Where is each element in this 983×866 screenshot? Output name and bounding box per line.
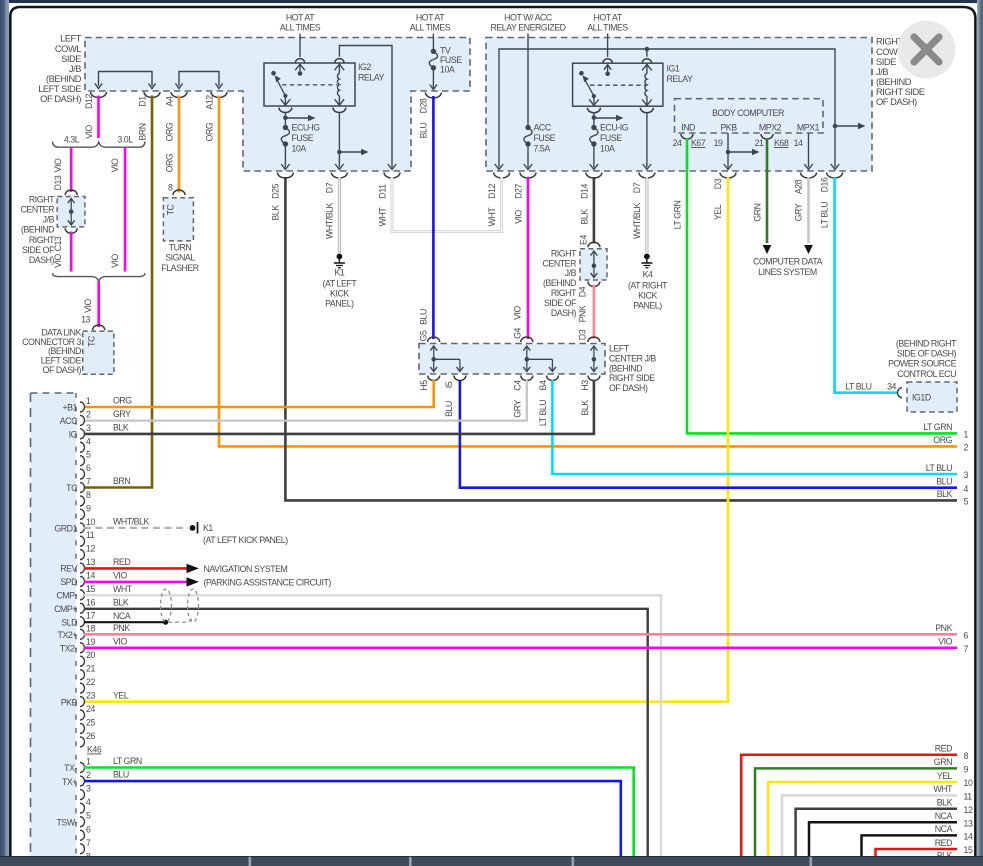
- wire LT GRN K46 pin1: [84, 756, 634, 856]
- pin C4 label: [513, 380, 523, 418]
- svg-text:3: 3: [86, 423, 91, 433]
- svg-text:K68: K68: [774, 138, 789, 148]
- wire GRN circuit 9: [755, 757, 969, 856]
- pin D14 label: [580, 184, 590, 225]
- svg-text:CMP-: CMP-: [56, 591, 77, 601]
- pin D3 label: [713, 178, 723, 220]
- wire VIO datalink label: [83, 298, 93, 312]
- wire VIO 3.0L branch: [124, 148, 127, 272]
- turn signal flasher pin 8: [168, 183, 185, 196]
- net: HOT AT ALL TIMES (IG1 switch feed): [587, 13, 628, 58]
- svg-text:D1: D1: [138, 96, 148, 107]
- strip pin 24: [80, 704, 95, 720]
- strip pin 6: [80, 463, 91, 479]
- strip pin 4: [80, 436, 91, 452]
- connector D14: [586, 173, 602, 179]
- svg-text:B4: B4: [538, 380, 548, 390]
- svg-text:VIO: VIO: [938, 637, 952, 647]
- svg-text:LT BLU: LT BLU: [926, 463, 952, 473]
- svg-text:J/B: J/B: [69, 64, 81, 74]
- svg-text:OF DASH): OF DASH): [876, 97, 917, 107]
- wire VIO from D27 to G4: [527, 177, 530, 339]
- svg-text:PKB: PKB: [61, 697, 78, 707]
- wire PNK from D4 to D3: [593, 285, 596, 340]
- connector D12 (right J/B): [494, 173, 510, 179]
- wire PNK pin18 to right edge (circuit 6): [84, 623, 957, 635]
- svg-text:(AT LEFT: (AT LEFT: [323, 279, 358, 289]
- wire VIO 3.0L labels: [110, 158, 120, 268]
- connector D7 (right): [639, 173, 655, 179]
- svg-text:3: 3: [86, 784, 91, 794]
- svg-text:5: 5: [86, 811, 91, 821]
- wire G5 BLU label: [419, 309, 429, 341]
- svg-text:VIO: VIO: [84, 124, 94, 138]
- svg-text:RIGHT: RIGHT: [551, 288, 577, 298]
- wire: right J/B feed rail: [495, 47, 866, 170]
- strip connector K46 pin 4: [80, 797, 91, 813]
- svg-text:BLK: BLK: [113, 422, 129, 432]
- svg-text:LT BLU: LT BLU: [538, 400, 548, 426]
- svg-text:BLU: BLU: [419, 309, 429, 325]
- strip pin 2: [60, 409, 91, 426]
- svg-text:HOT AT: HOT AT: [593, 13, 622, 23]
- svg-text:RED: RED: [935, 744, 952, 754]
- svg-text:14: 14: [794, 138, 803, 148]
- strip pin 7: [66, 477, 91, 494]
- label: power source control ECU: [888, 338, 957, 379]
- svg-text:KICK: KICK: [330, 289, 349, 299]
- svg-text:21: 21: [755, 138, 764, 148]
- svg-text:OF DASH): OF DASH): [43, 365, 82, 375]
- svg-text:PNK: PNK: [578, 305, 588, 322]
- svg-text:K1: K1: [203, 523, 213, 533]
- svg-text:IG1D: IG1D: [912, 393, 931, 403]
- wire: IG1 coil output to D7: [640, 108, 653, 170]
- svg-text:BLU: BLU: [419, 123, 429, 139]
- svg-text:6: 6: [86, 824, 91, 834]
- svg-text:OF DASH): OF DASH): [609, 383, 648, 393]
- svg-text:D12: D12: [487, 184, 497, 199]
- net GRN label: [753, 203, 763, 221]
- svg-text:ECU-IG: ECU-IG: [600, 123, 629, 133]
- svg-text:19: 19: [86, 637, 95, 647]
- fuse ECU-IG 10A (right): [590, 123, 629, 170]
- svg-text:22: 22: [86, 677, 95, 687]
- connector D16: [827, 173, 843, 179]
- svg-text:D14: D14: [580, 184, 590, 199]
- svg-text:KICK: KICK: [638, 291, 657, 301]
- wire LT BLU from D16 to IG1D: [835, 177, 898, 393]
- svg-text:RED: RED: [113, 557, 130, 567]
- pin D7 label (right): [632, 182, 642, 239]
- svg-text:7.5A: 7.5A: [534, 144, 551, 154]
- strip pin 1: [62, 396, 91, 413]
- pin B4 label: [538, 380, 548, 426]
- svg-text:SPD: SPD: [60, 577, 77, 587]
- relay IG2 (K?): [264, 59, 385, 106]
- strip pin 14: [60, 570, 95, 587]
- net: HOT AT ALL TIMES (TV fuse feed): [410, 13, 451, 33]
- net: HOT W/ ACC RELAY ENERGIZED (ACC fuse feed): [490, 13, 565, 33]
- svg-text:TC: TC: [87, 335, 97, 347]
- strip pin 25: [80, 717, 95, 733]
- pin D16 label: [820, 177, 830, 228]
- svg-text:25: 25: [86, 717, 95, 727]
- svg-text:VIO: VIO: [513, 305, 523, 319]
- wire: IG2 coil feed to D11: [339, 46, 392, 168]
- wire VIO from D12: [97, 96, 100, 139]
- svg-text:12: 12: [86, 544, 95, 554]
- svg-text:GRN: GRN: [753, 203, 763, 221]
- svg-text:DASH): DASH): [551, 308, 577, 318]
- connector D3 (body computer): [720, 173, 736, 179]
- junction block: RIGHT CENTER J/B (right instance): [543, 242, 607, 317]
- svg-text:WHT: WHT: [933, 784, 953, 794]
- svg-text:BLK: BLK: [580, 400, 590, 416]
- svg-text:RIGHT: RIGHT: [29, 194, 55, 204]
- svg-text:13: 13: [86, 557, 95, 567]
- strip pin 19: [60, 637, 96, 654]
- wire VIO 4.3L branch to D13: [70, 148, 73, 193]
- strip pin 13: [60, 557, 95, 574]
- strip pin 23: [61, 691, 96, 708]
- svg-text:K1: K1: [334, 268, 344, 278]
- svg-text:YEL: YEL: [713, 204, 723, 220]
- bottom bar: [0, 856, 983, 866]
- label: computer data lines system: [753, 257, 823, 277]
- junction block: RIGHT CENTER J/B (left instance): [21, 190, 85, 265]
- svg-text:24: 24: [673, 138, 682, 148]
- pin D7 label (left): [325, 182, 335, 239]
- svg-text:YEL: YEL: [937, 771, 953, 781]
- strip connector K46 pin 8: [80, 851, 91, 866]
- strip pin 16: [54, 597, 95, 614]
- svg-text:BRN: BRN: [113, 476, 130, 486]
- connector A28: [801, 173, 817, 179]
- fuse TV 10A: [429, 34, 462, 90]
- svg-text:LINES SYSTEM: LINES SYSTEM: [758, 267, 817, 277]
- wire ORG from H5 to strip pin 1 (+B1): [84, 380, 434, 407]
- svg-text:IND: IND: [681, 123, 695, 133]
- svg-text:LT BLU: LT BLU: [820, 202, 830, 228]
- svg-text:RIGHT SIDE: RIGHT SIDE: [609, 373, 655, 383]
- svg-text:IG1: IG1: [667, 64, 680, 74]
- svg-text:16: 16: [86, 597, 95, 607]
- fuse ACC 7.5A: [524, 34, 556, 170]
- svg-text:(PARKING ASSISTANCE CIRCUIT): (PARKING ASSISTANCE CIRCUIT): [204, 577, 332, 587]
- svg-text:HOT AT: HOT AT: [416, 13, 445, 23]
- svg-text:BLU: BLU: [444, 401, 454, 417]
- strip pin 15: [56, 584, 95, 601]
- wire: IG1 switch output junction: [587, 108, 623, 126]
- svg-text:WHT/BLK: WHT/BLK: [325, 202, 335, 239]
- strip pin 17: [61, 611, 95, 628]
- wire BLK from D25 to right edge (circuit 5): [285, 177, 957, 500]
- wire RED pin13 to navigation system: [84, 557, 288, 574]
- svg-text:D3: D3: [713, 178, 723, 189]
- svg-text:VIO: VIO: [53, 158, 63, 172]
- svg-text:K67: K67: [691, 138, 706, 148]
- svg-text:PANEL): PANEL): [325, 299, 354, 309]
- svg-text:6: 6: [86, 463, 91, 473]
- svg-text:TX+: TX+: [62, 777, 77, 787]
- strip connector K46 pin 5: [56, 811, 91, 828]
- svg-text:10A: 10A: [292, 144, 307, 154]
- svg-text:D4: D4: [578, 286, 588, 297]
- svg-text:NAVIGATION SYSTEM: NAVIGATION SYSTEM: [204, 564, 288, 574]
- svg-text:CENTER: CENTER: [543, 258, 577, 268]
- wire RED circuit 8: [741, 744, 968, 856]
- svg-text:K4: K4: [643, 270, 653, 280]
- wire: J/B bus A4-A12: [175, 72, 222, 89]
- svg-text:MPX1: MPX1: [797, 123, 820, 133]
- svg-text:9: 9: [86, 503, 91, 513]
- svg-text:PANEL): PANEL): [633, 301, 662, 311]
- svg-text:10A: 10A: [600, 144, 615, 154]
- pin MPX1 14: [794, 133, 813, 170]
- svg-text:TV: TV: [440, 46, 451, 56]
- svg-text:A4: A4: [165, 96, 175, 106]
- svg-text:BLU: BLU: [113, 770, 129, 780]
- pin D1 label: [138, 96, 148, 141]
- svg-text:NCA: NCA: [935, 824, 953, 834]
- svg-text:K46: K46: [87, 745, 102, 755]
- svg-text:YEL: YEL: [113, 691, 129, 701]
- svg-text:SIGNAL: SIGNAL: [165, 253, 195, 263]
- svg-text:18: 18: [86, 623, 95, 633]
- close button: [898, 21, 956, 79]
- svg-text:D28: D28: [419, 98, 429, 113]
- svg-text:D16: D16: [820, 177, 830, 192]
- svg-text:19: 19: [714, 138, 723, 148]
- svg-text:1: 1: [86, 396, 91, 406]
- pin D25 label: [271, 184, 281, 221]
- svg-text:BODY COMPUTER: BODY COMPUTER: [712, 108, 784, 118]
- svg-text:(BEHIND: (BEHIND: [609, 363, 642, 373]
- pin D13 label: [53, 158, 63, 190]
- svg-text:ALL TIMES: ALL TIMES: [587, 23, 628, 33]
- svg-text:TX2-: TX2-: [60, 643, 78, 653]
- svg-text:10: 10: [86, 517, 95, 527]
- svg-text:WHT/BLK: WHT/BLK: [113, 516, 150, 526]
- strip pin 11: [80, 530, 95, 546]
- svg-text:D3: D3: [578, 329, 588, 340]
- wire VIO pin19 to right edge (circuit 7): [84, 636, 957, 648]
- svg-text:PNK: PNK: [935, 623, 952, 633]
- data link connector 3 (TC): [22, 328, 114, 375]
- svg-text:WHT: WHT: [113, 584, 133, 594]
- svg-text:D7: D7: [632, 182, 642, 193]
- wire YEL circuit 10: [768, 771, 973, 856]
- svg-text:24: 24: [86, 704, 95, 714]
- strip pin 8: [80, 490, 91, 506]
- svg-text:ECU-IG: ECU-IG: [292, 123, 321, 133]
- brace 4.3L/3.0L split: [53, 134, 145, 147]
- svg-text:LT GRN: LT GRN: [673, 201, 683, 230]
- pin C13 label: [53, 236, 63, 268]
- svg-text:(BEHIND: (BEHIND: [543, 278, 576, 288]
- svg-text:ORG: ORG: [933, 435, 952, 445]
- svg-text:G4: G4: [513, 328, 523, 339]
- connector D7 (left): [331, 173, 347, 179]
- svg-text:ORG: ORG: [165, 153, 175, 172]
- svg-text:4: 4: [86, 797, 91, 807]
- turn signal flasher: [161, 198, 199, 273]
- strip pin 12: [80, 544, 95, 560]
- wire BRN from D1 to strip pin 7 (TC): [84, 96, 152, 488]
- connector pin 13: [81, 315, 105, 331]
- wire G4 VIO label: [513, 305, 523, 338]
- svg-text:RIGHT: RIGHT: [551, 248, 577, 258]
- svg-text:LT BLU: LT BLU: [845, 381, 871, 391]
- svg-text:COWL: COWL: [55, 44, 81, 54]
- pin I5 label: [444, 381, 454, 417]
- pin PKB 19: [714, 133, 760, 170]
- wire RED circuit 15: [876, 838, 973, 856]
- svg-text:BLK: BLK: [113, 597, 129, 607]
- connector D28: [425, 93, 441, 99]
- svg-text:TC: TC: [166, 203, 176, 215]
- wire BLK circuit 12: [796, 798, 973, 856]
- svg-text:+B1: +B1: [62, 403, 77, 413]
- svg-text:C4: C4: [513, 380, 523, 391]
- svg-text:PKB: PKB: [720, 123, 737, 133]
- wire: IG2 coil output junction to D7: [333, 108, 369, 170]
- body computer U1: [675, 99, 824, 133]
- junction block: LEFT CENTER J/B: [419, 337, 656, 393]
- pin D11 label: [378, 184, 388, 226]
- svg-text:(BEHIND RIGHT: (BEHIND RIGHT: [896, 338, 957, 348]
- svg-text:HOT W/ ACC: HOT W/ ACC: [504, 13, 553, 23]
- svg-text:J/B: J/B: [565, 268, 577, 278]
- wire VIO pin14 to parking assistance: [84, 570, 331, 587]
- relay IG1: [573, 59, 693, 106]
- svg-text:4.3L: 4.3L: [64, 134, 80, 144]
- wire BLU from I5 to right edge (circuit 4): [460, 380, 957, 488]
- wire GRY from C4 to strip pin 2 (ACC): [84, 380, 527, 421]
- svg-text:SIDE OF: SIDE OF: [544, 298, 577, 308]
- wire GRN from MPX2 to computer data lines: [763, 139, 772, 255]
- svg-text:VIO: VIO: [514, 209, 524, 223]
- svg-text:RED: RED: [935, 838, 952, 848]
- svg-text:2: 2: [86, 770, 91, 780]
- wire BLK pin16 (CMP+): [84, 597, 648, 856]
- svg-text:CONTROL ECU: CONTROL ECU: [897, 369, 956, 379]
- wire LT BLU from B4 to right edge (circuit 3): [552, 380, 957, 474]
- wire NCA pin17 shield drain: [84, 611, 194, 625]
- pin D4 / PNK / D3 labels: [578, 286, 588, 340]
- pin D28 label: [419, 98, 429, 138]
- wire NCA circuit 14: [862, 824, 973, 856]
- svg-text:E4: E4: [579, 235, 589, 245]
- connector A12: [211, 92, 227, 98]
- strip connector K46 pin 2: [62, 770, 91, 787]
- connector D27: [520, 173, 536, 179]
- strip connector K46 pin 3: [80, 784, 91, 800]
- junction block: LEFT COWL SIDE J/B: [38, 34, 470, 171]
- svg-text:(BEHIND: (BEHIND: [46, 74, 82, 84]
- svg-text:LT GRN: LT GRN: [923, 422, 952, 432]
- svg-text:BLK: BLK: [937, 489, 953, 499]
- svg-text:CENTER J/B: CENTER J/B: [609, 353, 656, 363]
- svg-text:(AT LEFT KICK PANEL): (AT LEFT KICK PANEL): [203, 535, 288, 545]
- pin E4 label: [579, 235, 589, 245]
- svg-text:H3: H3: [580, 380, 590, 391]
- wire NCA circuit 13: [809, 811, 973, 856]
- wire BLK from H3 to strip pin 3 (IG): [84, 380, 594, 434]
- svg-text:TX2+: TX2+: [58, 630, 78, 640]
- svg-text:TSW-: TSW-: [56, 817, 77, 827]
- strip pin 18: [58, 623, 96, 640]
- svg-text:VIO: VIO: [110, 158, 120, 172]
- svg-text:BLU: BLU: [936, 477, 952, 487]
- svg-text:D13: D13: [53, 175, 63, 190]
- svg-text:VIO: VIO: [110, 253, 120, 267]
- svg-text:VIO: VIO: [83, 298, 93, 312]
- svg-text:ORG: ORG: [165, 122, 175, 141]
- wire WHT circuit 11: [782, 784, 972, 856]
- strip pin 26: [80, 731, 95, 747]
- svg-text:34: 34: [887, 382, 896, 392]
- svg-text:FLASHER: FLASHER: [161, 263, 199, 273]
- svg-text:4: 4: [86, 436, 91, 446]
- svg-text:26: 26: [86, 731, 95, 741]
- svg-text:14: 14: [86, 570, 95, 580]
- svg-text:CENTER: CENTER: [21, 205, 55, 215]
- svg-text:NCA: NCA: [935, 811, 953, 821]
- svg-text:A28: A28: [794, 179, 804, 194]
- svg-text:TURN: TURN: [169, 243, 192, 253]
- svg-text:BLK: BLK: [580, 209, 590, 225]
- svg-text:WHT/BLK: WHT/BLK: [632, 202, 642, 239]
- svg-text:5: 5: [86, 450, 91, 460]
- wire WHT from D11 to D12: [392, 177, 502, 232]
- wire VIO to data link connector pin 13: [97, 282, 100, 328]
- svg-text:23: 23: [86, 691, 95, 701]
- svg-text:CMP+: CMP+: [54, 604, 77, 614]
- wire BLK from D14 to E4: [593, 177, 596, 244]
- wire BLU from D28 to G5: [432, 96, 435, 339]
- svg-text:A12: A12: [205, 95, 215, 110]
- svg-text:D11: D11: [378, 184, 388, 199]
- pin D12 label: [84, 94, 94, 139]
- strip pin 21: [80, 664, 95, 680]
- svg-text:LEFT SIDE: LEFT SIDE: [38, 84, 81, 94]
- svg-text:GRD1: GRD1: [54, 523, 77, 533]
- wire WHT pin15 (CMP-): [84, 584, 661, 856]
- svg-text:SIDE: SIDE: [61, 54, 81, 64]
- strip connector K46 pin 7: [80, 838, 91, 854]
- strip connector K46 pin 6: [80, 824, 91, 840]
- svg-text:2: 2: [86, 409, 91, 419]
- svg-text:D12: D12: [84, 94, 94, 109]
- wire: IG2 switch output, junction, branch arrow: [279, 108, 316, 126]
- wire VIO from C13: [70, 232, 73, 272]
- svg-text:D27: D27: [514, 184, 524, 199]
- strip pin 5: [80, 450, 91, 466]
- svg-text:RIGHT SIDE: RIGHT SIDE: [876, 87, 925, 97]
- strip connector K46 pin 1: [64, 757, 91, 774]
- strip pin 3: [69, 423, 91, 440]
- connector D25: [277, 173, 293, 179]
- svg-text:NCA: NCA: [113, 611, 131, 621]
- svg-text:RIGHT: RIGHT: [29, 235, 55, 245]
- svg-text:LEFT: LEFT: [60, 34, 82, 44]
- wire GRY from A28 to computer data lines: [804, 177, 813, 254]
- wire YEL from D3 to strip pin 23 (PKB): [84, 177, 728, 702]
- svg-text:FUSE: FUSE: [440, 55, 462, 65]
- strip pin 10: [54, 517, 95, 534]
